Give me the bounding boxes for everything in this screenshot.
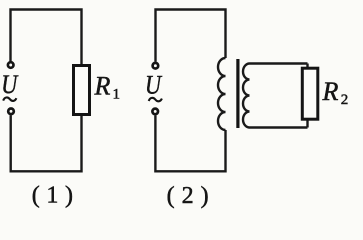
terminal top circuit 1 <box>8 62 14 68</box>
terminal bottom circuit 2 <box>152 109 158 115</box>
primary coil L1 <box>218 58 226 130</box>
svg-text:( 1 ): ( 1 ) <box>32 183 73 209</box>
svg-text:( 2 ): ( 2 ) <box>167 183 209 209</box>
wire top section circuit 1 <box>11 10 82 65</box>
svg-text:1: 1 <box>113 87 121 103</box>
transformer core <box>236 59 239 128</box>
circuit 1 loop <box>11 10 82 172</box>
tilde circuit 1 <box>3 97 16 100</box>
wire R2 top jog <box>306 64 308 69</box>
wire R2 bottom jog <box>306 120 308 128</box>
resistor R2 <box>302 68 318 119</box>
svg-text:U: U <box>145 71 163 100</box>
wire bottom section circuit 2 <box>155 116 225 172</box>
wire top section circuit 2 <box>156 10 226 62</box>
svg-text:U: U <box>1 70 19 99</box>
terminal bottom circuit 1 <box>8 109 14 115</box>
resistor R1 <box>74 66 90 115</box>
terminal top circuit 2 <box>153 63 159 69</box>
circuit 2 loop <box>155 10 225 172</box>
svg-text:R: R <box>94 71 111 100</box>
svg-text:R: R <box>322 77 339 106</box>
tilde circuit 2 <box>149 98 162 101</box>
svg-text:2: 2 <box>341 92 349 108</box>
secondary coil L2 <box>243 64 307 128</box>
wire bottom section circuit 1 <box>11 115 82 171</box>
